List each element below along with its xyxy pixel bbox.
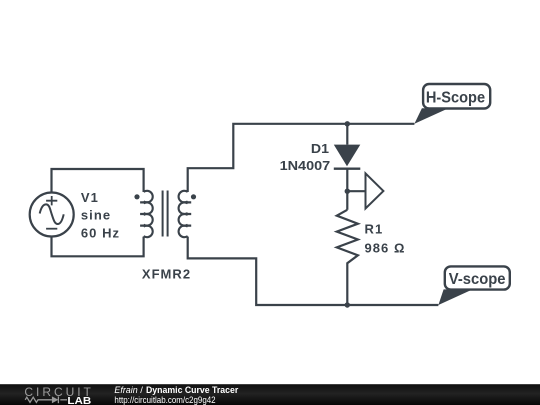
svg-text:986 Ω: 986 Ω	[365, 240, 406, 255]
svg-text:60 Hz: 60 Hz	[81, 225, 120, 240]
svg-text:XFMR2: XFMR2	[142, 266, 191, 281]
svg-text:V-scope: V-scope	[449, 271, 506, 288]
svg-text:D1: D1	[311, 141, 329, 156]
svg-text:V1: V1	[81, 190, 99, 205]
svg-text:1N4007: 1N4007	[280, 158, 331, 173]
svg-text:sine: sine	[81, 208, 111, 223]
svg-text:LAB: LAB	[67, 396, 91, 405]
svg-text:R1: R1	[365, 222, 384, 237]
svg-text:http://circuitlab.com/c2g9g42: http://circuitlab.com/c2g9g42	[114, 395, 215, 405]
svg-text:H-Scope: H-Scope	[426, 90, 485, 107]
